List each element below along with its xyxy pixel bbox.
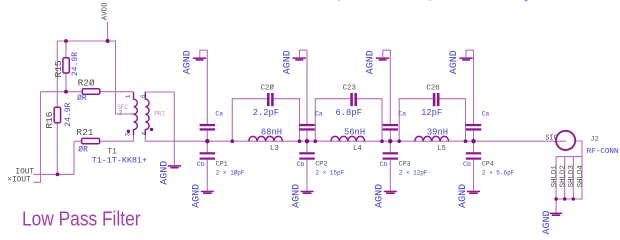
svg-text:AGND: AGND (192, 184, 203, 208)
svg-text:SHLD1: SHLD1 (551, 165, 559, 188)
svg-text:AGND: AGND (542, 210, 553, 234)
svg-text:24.9R: 24.9R (64, 102, 73, 126)
svg-text:R15: R15 (53, 60, 64, 77)
svg-text:2.2pF: 2.2pF (253, 108, 279, 118)
svg-text:×IOUT: ×IOUT (7, 177, 31, 185)
svg-text:C2Ø: C2Ø (261, 84, 275, 93)
svg-text:4: 4 (141, 132, 148, 136)
svg-text:2 × 12pF: 2 × 12pF (399, 169, 428, 176)
svg-text:2: 2 (119, 110, 123, 117)
svg-text:L4: L4 (353, 145, 362, 153)
svg-text:IOUT: IOUT (15, 168, 34, 176)
svg-text:SHLD4: SHLD4 (577, 165, 585, 188)
svg-text:AGND: AGND (282, 50, 293, 74)
svg-text:AGND: AGND (458, 184, 469, 208)
svg-text:2 × 1ØpF: 2 × 1ØpF (216, 169, 245, 176)
svg-text:2 × 15pF: 2 × 15pF (315, 169, 344, 176)
svg-text:AGND: AGND (366, 50, 377, 74)
svg-text:Ca: Ca (315, 111, 323, 118)
svg-text:Cb: Cb (463, 161, 471, 168)
svg-text:SIG: SIG (545, 134, 558, 142)
svg-text:L5: L5 (437, 145, 446, 153)
svg-text:T1-1T-KK81+: T1-1T-KK81+ (92, 156, 147, 166)
svg-text:12pF: 12pF (421, 108, 442, 118)
svg-text:56nH: 56nH (344, 128, 365, 138)
svg-text:ØR: ØR (77, 94, 87, 103)
svg-text:RF-CONN: RF-CONN (587, 148, 619, 156)
svg-text:Ca: Ca (482, 111, 490, 118)
svg-text:Cb: Cb (380, 161, 388, 168)
svg-text:Ca: Ca (215, 111, 223, 118)
svg-text:C26: C26 (426, 85, 439, 93)
svg-text:AGND: AGND (159, 161, 170, 185)
svg-text:6: 6 (140, 94, 147, 98)
svg-text:2 × 5.6pF: 2 × 5.6pF (482, 169, 515, 176)
svg-text:AVDD: AVDD (102, 2, 110, 20)
svg-text:R2Ø: R2Ø (78, 77, 95, 88)
svg-text:CP4: CP4 (482, 160, 494, 168)
svg-text:R21: R21 (76, 127, 93, 138)
svg-text:SHLD3: SHLD3 (568, 165, 576, 187)
svg-text:68nH: 68nH (261, 128, 282, 138)
svg-text:J2: J2 (591, 136, 599, 144)
svg-text:CP3: CP3 (399, 160, 411, 168)
svg-text:R16: R16 (44, 111, 55, 128)
svg-text:AGND: AGND (449, 50, 460, 74)
svg-text:Cb: Cb (297, 161, 305, 168)
svg-text:ØR: ØR (78, 145, 88, 154)
svg-text:L3: L3 (270, 145, 279, 153)
svg-text:AGND: AGND (183, 50, 194, 74)
svg-text:AGND: AGND (291, 184, 302, 208)
svg-text:SHLD2: SHLD2 (560, 165, 568, 187)
svg-text:CP1: CP1 (216, 160, 228, 168)
svg-text:C23: C23 (343, 85, 356, 93)
svg-text:Ca: Ca (398, 111, 406, 118)
svg-text:3: 3 (125, 133, 132, 137)
svg-text:24.9R: 24.9R (71, 52, 80, 76)
svg-text:PRI: PRI (154, 110, 165, 117)
svg-text:AGND: AGND (375, 184, 386, 208)
svg-text:Low Pass Filter: Low Pass Filter (22, 208, 141, 231)
svg-text:Cb: Cb (197, 161, 205, 168)
svg-text:6.8pF: 6.8pF (336, 108, 362, 118)
svg-text:CP2: CP2 (315, 160, 327, 168)
svg-text:39nH: 39nH (427, 128, 448, 138)
svg-text:1: 1 (125, 94, 132, 98)
